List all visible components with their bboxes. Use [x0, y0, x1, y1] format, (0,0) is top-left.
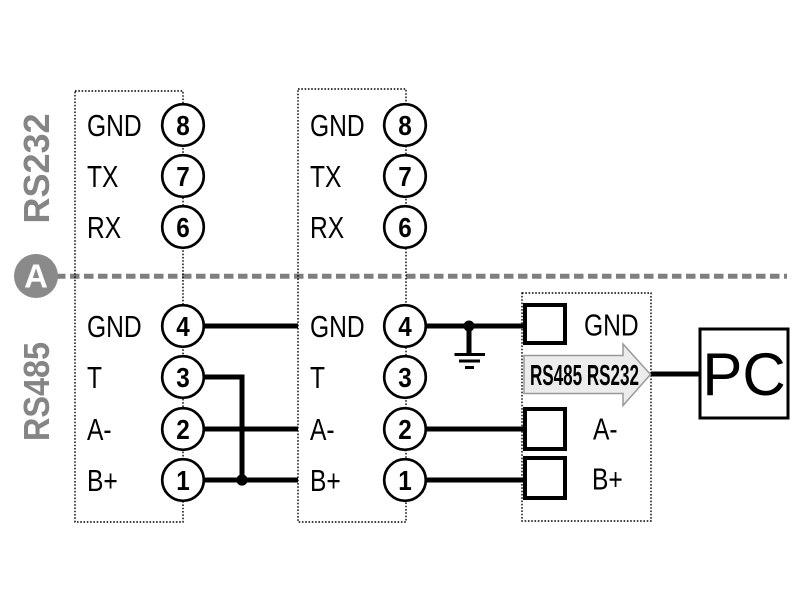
J1 pin label A- [87, 412, 112, 447]
connector J2 outline [298, 89, 406, 522]
svg-text:GND: GND [310, 309, 365, 344]
svg-text:1: 1 [398, 465, 412, 496]
pin J1-6 [162, 206, 204, 248]
J1 pin label T [87, 360, 102, 395]
pin J1-1 [162, 459, 204, 501]
svg-text:A-: A- [593, 412, 618, 447]
svg-text:2: 2 [176, 414, 190, 445]
pin J2-6 [384, 206, 426, 248]
svg-text:7: 7 [176, 161, 190, 192]
svg-text:A-: A- [310, 412, 335, 447]
converter box outline [522, 293, 651, 521]
svg-text:B+: B+ [592, 462, 623, 497]
svg-text:RX: RX [310, 210, 344, 245]
label RS485 [16, 342, 57, 441]
J1 pin label B+ [87, 463, 118, 498]
svg-text:PC: PC [702, 341, 785, 408]
J2 pin label TX [310, 159, 342, 194]
terminal GND [525, 305, 565, 343]
terminal label B+ [592, 462, 623, 497]
svg-text:B+: B+ [310, 463, 341, 498]
svg-text:3: 3 [176, 362, 190, 393]
pin J2-8 [384, 104, 426, 146]
svg-text:RX: RX [87, 210, 121, 245]
wire J1 pin4 GND to J2 [183, 324, 298, 329]
svg-text:6: 6 [398, 212, 412, 243]
svg-text:4: 4 [176, 311, 190, 342]
wire J2 pin2 A- to terminal [405, 427, 523, 432]
pin J1-7 [162, 155, 204, 197]
svg-text:T: T [310, 360, 325, 395]
wire J1 pin1 B+ to J2 [183, 478, 298, 483]
PC box U1 [700, 329, 788, 418]
pin J2-4 [384, 305, 426, 347]
terminal label A- [593, 412, 618, 447]
svg-text:GND: GND [310, 108, 365, 143]
connector J1 outline [75, 91, 183, 522]
pin J2-7 [384, 155, 426, 197]
section divider dashed line (net A) [56, 274, 787, 279]
J2 pin label B+ [310, 463, 341, 498]
svg-text:RS232: RS232 [16, 113, 57, 223]
J2 pin label T [310, 360, 325, 395]
J2 pin label GND [310, 309, 365, 344]
svg-text:B+: B+ [87, 463, 118, 498]
J2 pin label RX [310, 210, 344, 245]
svg-text:GND: GND [87, 108, 142, 143]
terminal label GND [584, 308, 639, 343]
pin J2-2 [384, 408, 426, 450]
svg-text:1: 1 [176, 465, 190, 496]
svg-text:T: T [87, 360, 102, 395]
pin J2-1 [384, 459, 426, 501]
pin J1-8 [162, 104, 204, 146]
svg-text:RS485: RS485 [16, 342, 57, 441]
pin J1-3 [162, 356, 204, 398]
svg-text:RS485 RS232: RS485 RS232 [530, 360, 639, 392]
svg-text:GND: GND [87, 309, 142, 344]
wire converter to PC [651, 372, 700, 377]
svg-text:GND: GND [584, 308, 639, 343]
junction dot on B+ net [236, 474, 247, 485]
J1 pin label TX [87, 159, 119, 194]
pin J1-4 [162, 305, 204, 347]
svg-text:TX: TX [310, 159, 342, 194]
svg-text:7: 7 [398, 161, 412, 192]
pin J1-2 [162, 408, 204, 450]
terminal B+ [525, 458, 565, 498]
label RS232 [16, 113, 57, 223]
J2 pin label A- [310, 412, 335, 447]
svg-text:4: 4 [398, 311, 412, 342]
svg-text:TX: TX [87, 159, 119, 194]
node A marker [14, 254, 58, 298]
wire J1 pin2 A- to J2 [183, 427, 298, 432]
wire J1 pin3 T to B+ net [183, 377, 242, 480]
junction dot on GND wire [464, 321, 475, 332]
svg-text:A-: A- [87, 412, 112, 447]
wire J2 pin4 GND to terminal [405, 324, 523, 329]
converter arrow RS485 to RS232 [524, 344, 651, 406]
ground [455, 326, 486, 368]
J2 pin label GND [310, 108, 365, 143]
J1 pin label RX [87, 210, 121, 245]
wire J2 pin1 B+ to terminal [405, 478, 523, 483]
svg-text:8: 8 [398, 110, 412, 141]
J1 pin label GND [87, 108, 142, 143]
svg-text:A: A [24, 258, 48, 295]
J1 pin label GND [87, 309, 142, 344]
pin J2-3 [384, 356, 426, 398]
svg-text:2: 2 [398, 414, 412, 445]
svg-text:8: 8 [176, 110, 190, 141]
svg-text:3: 3 [398, 362, 412, 393]
terminal A- [525, 409, 565, 449]
svg-text:6: 6 [176, 212, 190, 243]
